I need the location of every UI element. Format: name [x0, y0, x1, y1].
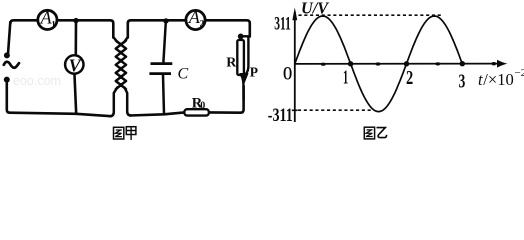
dashed line -311 [298, 109, 372, 111]
svg-text:t: t [478, 70, 483, 89]
x-axis arrowhead [497, 60, 507, 68]
ammeter A2 [186, 7, 205, 30]
voltmeter V [65, 55, 83, 75]
rheostat slider arrow P [240, 74, 248, 83]
wire: left loop left side upper [8, 22, 10, 54]
y-axis U axis [294, 12, 296, 122]
node: t=1 crossing dot [348, 61, 353, 66]
wire: right loop top [128, 20, 250, 36]
wire: right loop left side (transformer secondary lead) [127, 23, 130, 38]
x-axis bulge dot near arrow [492, 62, 497, 65]
y-axis arrowhead [292, 8, 297, 21]
transformer coil column (primary + secondary) [110, 37, 131, 116]
AC source tilde [4, 62, 19, 68]
svg-text:−2: −2 [515, 67, 524, 79]
ammeter A1 [38, 7, 57, 29]
svg-text:-311: -311 [268, 105, 293, 126]
resistor R0 box [184, 109, 209, 115]
tick dot t=2.5 [435, 62, 440, 65]
sine curve u(t) [295, 16, 463, 112]
rheostat R lead top [239, 36, 241, 41]
wire: left loop left side lower [7, 82, 10, 113]
wire: left loop top [11, 20, 114, 37]
svg-text:V: V [69, 55, 83, 75]
rheostat: connector from top junction to slider wire [241, 35, 250, 37]
svg-text:311: 311 [274, 14, 291, 35]
wire: left loop bottom [10, 113, 111, 117]
rheostat slider wire [246, 37, 249, 74]
svg-text:3: 3 [459, 71, 466, 93]
dashed line +311 [299, 14, 443, 16]
svg-text:0: 0 [200, 101, 205, 112]
svg-text:P: P [250, 65, 258, 80]
svg-text:1: 1 [343, 66, 348, 88]
node: capacitor bottom junction [161, 112, 168, 116]
svg-text:C: C [178, 65, 189, 82]
tick dot t=0.5 [321, 63, 326, 66]
svg-text:U/V: U/V [301, 0, 330, 18]
wire: right loop bottom left [130, 112, 185, 115]
tick dot t=1.5 [376, 62, 381, 65]
node: capacitor top junction [163, 18, 168, 23]
rheostat R box [237, 40, 244, 75]
node: V branch bottom junction [73, 111, 79, 115]
capacitor C [149, 22, 172, 114]
wire: voltmeter branch [75, 21, 77, 114]
transformer crossing knots [119, 43, 123, 88]
svg-text:eoo.com: eoo.com [13, 74, 61, 88]
svg-text:/×10: /×10 [483, 70, 514, 89]
rheostat R bottom lead [242, 76, 244, 101]
node: t=3 crossing dot [460, 61, 465, 66]
svg-text:2: 2 [406, 67, 413, 89]
AC source terminal dot (bottom) [4, 77, 10, 83]
AC source terminal dot (top) [4, 52, 10, 58]
node: t=2 crossing dot [404, 61, 409, 66]
node: rheostat top junction [238, 34, 244, 40]
svg-text:O: O [283, 64, 292, 85]
node: V branch top junction [73, 18, 78, 23]
wire: right loop bottom right [209, 86, 244, 113]
svg-text:2: 2 [200, 19, 205, 29]
svg-text:R: R [226, 56, 237, 71]
svg-text:1: 1 [51, 19, 56, 29]
label 图甲 (drawn glyphs) [114, 127, 136, 140]
x-axis t axis [295, 63, 498, 65]
label 图乙 (drawn glyphs) [364, 127, 386, 139]
tick -311 on y-axis [292, 109, 298, 111]
